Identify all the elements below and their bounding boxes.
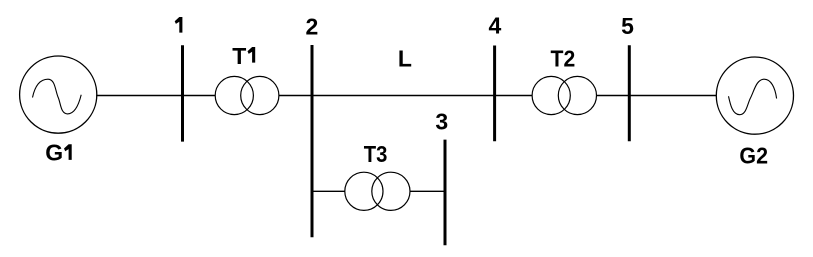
wire bus 4 to T2 — [495, 95, 532, 97]
wire T1 to bus 2 — [279, 95, 312, 97]
bus 2 — [311, 45, 314, 237]
svg-text:3: 3 — [435, 109, 448, 135]
bus 1 — [181, 45, 184, 141]
wire T3 to bus 3 — [410, 190, 445, 192]
wire G1 to bus 1 and T1 — [96, 95, 215, 97]
svg-text:T3: T3 — [364, 141, 388, 167]
svg-text:T: T — [232, 43, 246, 69]
wire bus 5 to G2 — [629, 95, 716, 97]
line L wire bus 2 to bus 4 — [312, 95, 495, 97]
svg-text:T2: T2 — [551, 46, 576, 72]
transformer T1 — [215, 76, 279, 114]
wire bus 2 to T3 (branch) — [312, 190, 345, 192]
bus 4 — [493, 46, 496, 142]
generator G1 — [20, 56, 97, 133]
label 1 — [175, 17, 183, 33]
generator G2 — [716, 57, 793, 134]
wire T2 to bus 5 — [597, 95, 630, 97]
transformer T3 — [345, 172, 410, 210]
svg-text:L: L — [398, 45, 412, 71]
svg-text:G: G — [45, 140, 63, 166]
svg-text:G2: G2 — [739, 142, 768, 168]
svg-text:5: 5 — [621, 13, 634, 39]
bus 3 — [444, 140, 447, 246]
svg-text:4: 4 — [489, 13, 502, 39]
transformer T2 — [532, 76, 596, 114]
svg-text:2: 2 — [306, 13, 319, 39]
bus 5 — [628, 45, 631, 141]
